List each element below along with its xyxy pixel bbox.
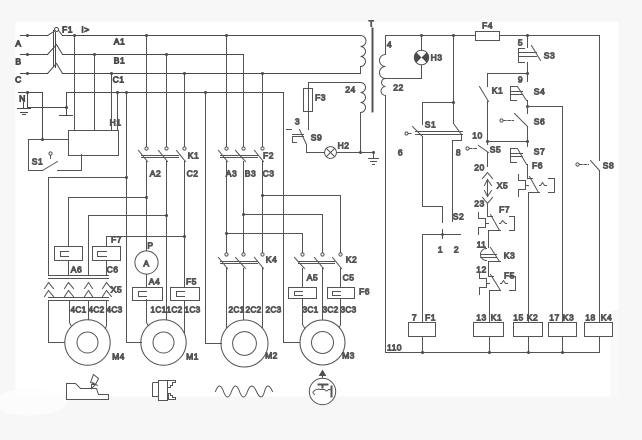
wire N to H1 — [117, 93, 119, 131]
wire 24V top to F3 — [309, 83, 361, 89]
wire 2C3 — [262, 269, 264, 329]
svg-text:M4: M4 — [112, 352, 125, 362]
node N M2 column dot — [204, 91, 207, 94]
node tap4 dot — [183, 235, 186, 238]
overload heater A4 box — [133, 288, 163, 301]
svg-text:3C3: 3C3 — [341, 306, 357, 315]
svg-text:110: 110 — [387, 343, 402, 353]
switch S5 actuator — [466, 147, 469, 150]
fuse F3 — [304, 89, 313, 112]
wire K2 pole2 down — [322, 269, 324, 321]
contactor F2 pole1 — [225, 147, 228, 150]
wire tap1 from N column — [49, 178, 127, 276]
wire F3 to S9 — [308, 112, 310, 130]
wire 4C2 — [88, 301, 90, 321]
svg-text:6: 6 — [398, 148, 403, 158]
wire K1 pole2 down — [166, 162, 168, 321]
connector X5 pin4 arrows — [103, 283, 112, 297]
svg-text:2: 2 — [454, 245, 459, 255]
wire B1 to K1 pole2 — [166, 55, 168, 147]
svg-text:I>: I> — [81, 25, 89, 35]
node A input dot — [26, 34, 29, 37]
node tap B3 dot — [242, 213, 245, 216]
svg-text:A: A — [143, 259, 149, 269]
wire B3 — [243, 162, 245, 253]
switch S4 — [511, 74, 528, 107]
svg-text:A1: A1 — [114, 37, 125, 47]
svg-text:F1: F1 — [425, 313, 436, 323]
svg-text:F6: F6 — [532, 161, 543, 171]
relay coil K4 — [585, 323, 613, 337]
svg-text:3C1: 3C1 — [303, 306, 319, 315]
wire tap B3 to K2 pole2 — [244, 215, 323, 253]
wire node 9 bridge — [488, 73, 528, 75]
wire bus A1 — [63, 35, 361, 37]
connector X5 control — [483, 173, 493, 209]
node S3 out dot — [526, 72, 529, 75]
wire A1 to H1 — [74, 36, 76, 131]
svg-text:A4: A4 — [149, 277, 160, 287]
wire A3 — [226, 162, 228, 253]
ground symbol left — [18, 103, 31, 115]
node K3 rail dot — [561, 351, 564, 354]
switch S6 — [515, 107, 528, 142]
node ground tap dot — [372, 151, 375, 154]
svg-text:A2: A2 — [150, 169, 161, 179]
wire left rail down — [385, 96, 387, 353]
rectifier H1 box — [69, 131, 119, 156]
wire 2C1 — [226, 269, 228, 331]
motor M3 — [300, 320, 345, 365]
contactor K1 pole2 — [165, 147, 168, 150]
wire 4C3 — [105, 301, 107, 332]
relay coil K2 — [514, 323, 543, 337]
svg-text:4: 4 — [387, 40, 392, 50]
svg-text:K1: K1 — [188, 151, 199, 161]
motor M1 — [141, 320, 186, 365]
lamp H2 — [325, 147, 337, 159]
wire K1 coil to rail — [489, 337, 491, 353]
svg-text:B: B — [15, 57, 21, 67]
svg-text:F2: F2 — [263, 151, 274, 161]
switch S9 — [300, 130, 307, 153]
overload heater A5 box — [289, 288, 317, 299]
relay coil K1 — [474, 323, 504, 337]
wire 2C2 — [243, 269, 245, 321]
svg-text:B1: B1 — [114, 56, 125, 66]
fuse F4 — [476, 32, 500, 41]
svg-text:20: 20 — [474, 163, 484, 173]
svg-text:P: P — [147, 241, 153, 251]
contactor F2 tie bars — [221, 156, 258, 158]
contactor K4 tie bars — [221, 262, 258, 264]
node C1 H1 dot — [110, 72, 113, 75]
node B input dot — [26, 53, 29, 56]
svg-text:X5: X5 — [111, 285, 122, 295]
breaker F1 pole C — [48, 64, 63, 74]
switch S8 — [591, 161, 600, 323]
overload heater C6 box — [93, 247, 121, 261]
wire control top rail — [386, 35, 600, 37]
wire C6 to X5 — [106, 262, 108, 276]
contactor K4 pole2 — [242, 253, 245, 256]
svg-text:K2: K2 — [527, 313, 538, 323]
node H1 neutral dot — [116, 91, 119, 94]
wire H3 top — [421, 36, 423, 51]
contactor K2 pole2 — [321, 253, 324, 256]
neutral input wiring — [19, 93, 67, 116]
switch S1 control pole 8 — [453, 124, 462, 222]
motor M2 — [221, 320, 268, 367]
svg-text:C5: C5 — [343, 273, 355, 283]
wire bus B1 — [63, 54, 244, 56]
svg-text:S1: S1 — [425, 120, 436, 130]
node S4 out dot — [526, 105, 529, 108]
node C input dot — [26, 72, 29, 75]
contact F5 overload — [480, 273, 516, 323]
phase A input lead — [21, 35, 48, 37]
svg-text:A5: A5 — [307, 273, 318, 283]
svg-text:C: C — [15, 75, 22, 85]
icon pump arrow — [320, 371, 326, 379]
svg-text:S6: S6 — [534, 117, 545, 127]
switch S2 selector — [423, 230, 461, 239]
node S2 common dot — [441, 233, 444, 236]
connector X5 bottom bars — [49, 298, 109, 301]
node N motor column dot — [125, 91, 128, 94]
wire 4C1 — [70, 301, 73, 329]
wire H2 to ground — [337, 152, 374, 154]
node H3 rail dot — [420, 34, 423, 37]
svg-text:H1: H1 — [110, 118, 122, 128]
ground symbol 24V — [369, 153, 379, 165]
contactor F2 pole3 — [261, 147, 264, 150]
contactor K1 pole3 — [183, 147, 186, 150]
node N ground tap dot — [65, 106, 68, 109]
switch S6 actuator — [500, 119, 503, 122]
svg-text:K1: K1 — [492, 86, 503, 96]
node K1 rail dot — [488, 351, 491, 354]
icon lathe tool — [67, 384, 109, 400]
svg-text:12: 12 — [476, 265, 486, 275]
svg-text:10: 10 — [472, 131, 482, 141]
contact F7 overload — [479, 209, 515, 244]
wire bus C1 — [63, 73, 361, 75]
svg-text:A: A — [15, 39, 21, 49]
node tap1 dot — [125, 176, 128, 179]
svg-text:S3: S3 — [544, 51, 555, 61]
switch S1 main — [29, 140, 82, 171]
wire A6 to X5 — [68, 262, 70, 276]
node A1 K1 dot — [145, 34, 148, 37]
phase B input lead — [21, 54, 48, 56]
svg-text:F3: F3 — [315, 93, 326, 103]
svg-text:S1: S1 — [32, 157, 43, 167]
wire A5 — [302, 269, 304, 288]
svg-text:24: 24 — [345, 85, 355, 95]
wire 3C3 — [339, 300, 341, 330]
svg-text:F6: F6 — [359, 287, 370, 297]
breaker F1 pole A — [48, 31, 63, 36]
svg-text:11: 11 — [477, 240, 487, 250]
svg-text:4C1: 4C1 — [71, 306, 87, 315]
icon coolant wave — [216, 386, 273, 397]
wire C5 — [340, 269, 342, 288]
svg-text:2C3: 2C3 — [266, 306, 282, 315]
node tap C3 dot — [261, 194, 264, 197]
wire node 10 — [488, 141, 528, 143]
overload heater A6 box — [55, 247, 83, 261]
ground symbol under N bus — [60, 115, 73, 117]
wire C2 — [184, 162, 186, 334]
wire B1 to F2 pole2 — [243, 55, 245, 147]
wire secondary tap to H3 — [386, 65, 422, 79]
svg-text:1C3: 1C3 — [185, 306, 201, 315]
wire F1 coil to rail — [422, 337, 424, 353]
phase C input lead — [21, 73, 48, 75]
svg-text:3: 3 — [295, 117, 300, 127]
contactor K4 pole3 — [261, 253, 264, 256]
wire 3C1 — [303, 300, 306, 330]
svg-text:1C2: 1C2 — [167, 306, 183, 315]
wire S2 to F1 coil — [422, 235, 424, 323]
wire tap C3 to K2 pole3 — [263, 196, 341, 253]
svg-text:3C2: 3C2 — [323, 306, 339, 315]
svg-text:F5: F5 — [504, 271, 515, 281]
svg-text:1C1: 1C1 — [151, 306, 167, 315]
wire right rail — [599, 36, 601, 161]
svg-text:F7: F7 — [499, 205, 510, 215]
node 10 right dot — [526, 140, 529, 143]
svg-text:23: 23 — [474, 199, 484, 209]
wire C3 — [262, 162, 264, 253]
svg-text:2C1: 2C1 — [229, 306, 245, 315]
wire M4 left — [49, 301, 65, 343]
wire A1 to K1 pole1 — [146, 36, 148, 147]
switch S9 actuator — [287, 130, 304, 143]
switch S8 actuator — [576, 163, 579, 166]
lamp H3 — [414, 50, 428, 64]
svg-text:K4: K4 — [601, 313, 612, 323]
svg-text:K4: K4 — [266, 255, 277, 265]
svg-text:M1: M1 — [186, 352, 199, 362]
svg-text:C1: C1 — [113, 75, 125, 85]
node S1 feed dot — [41, 138, 44, 141]
icon pump — [309, 378, 335, 404]
svg-text:8: 8 — [456, 148, 461, 158]
svg-text:N: N — [19, 94, 26, 104]
svg-text:X5: X5 — [497, 181, 508, 191]
wire H1 left feed — [29, 139, 69, 141]
wire tap3 from K1 pole2 — [89, 216, 167, 276]
svg-text:13: 13 — [476, 313, 486, 323]
wire tap A3 to K2 pole1 — [227, 234, 303, 253]
contactor K1 tie bars — [142, 156, 179, 158]
svg-text:C3: C3 — [263, 169, 275, 179]
svg-text:4C3: 4C3 — [107, 306, 123, 315]
node C1 F2 dot — [261, 72, 264, 75]
transformer primary winding upper — [361, 36, 367, 74]
breaker F1 tie bars — [54, 31, 56, 68]
svg-text:S9: S9 — [311, 133, 322, 143]
switch S1 actuator circle — [49, 152, 52, 155]
wire K4 coil to rail — [599, 337, 601, 353]
contactor K2 pole1 — [301, 253, 304, 256]
wire K2 coil to rail — [528, 337, 530, 353]
wire 1C1 — [147, 300, 150, 329]
wire M3 left — [284, 93, 300, 343]
node tap3 dot — [165, 214, 168, 217]
wire ammeter to A4 — [146, 275, 148, 288]
wire B1 to H1 — [94, 55, 96, 131]
wire 24V bottom down — [360, 113, 362, 153]
svg-text:7: 7 — [412, 313, 417, 323]
transformer winding 24V — [361, 83, 366, 113]
svg-text:T: T — [369, 19, 375, 29]
node B1 H1 dot — [93, 53, 96, 56]
wire M1 left — [127, 93, 142, 343]
overload heater F5 box — [171, 288, 200, 301]
connector X5 pin1 arrows — [45, 283, 54, 297]
relay coil K3 — [549, 323, 577, 337]
svg-text:K1: K1 — [491, 313, 502, 323]
node N input dot — [26, 91, 29, 94]
node C1 K1 dot — [183, 72, 186, 75]
svg-text:4C2: 4C2 — [89, 306, 105, 315]
svg-text:F5: F5 — [186, 277, 197, 287]
svg-text:22: 22 — [393, 83, 403, 93]
node tap2 dot — [145, 196, 148, 199]
node K2 rail dot — [527, 351, 530, 354]
svg-text:A3: A3 — [226, 169, 237, 179]
node A1 F2 dot — [225, 34, 228, 37]
switch S1 control pole 6 — [413, 127, 423, 207]
ammeter A — [135, 251, 158, 274]
svg-text:2C2: 2C2 — [246, 306, 262, 315]
connector X5 pin2 arrows — [65, 283, 74, 297]
wire S4 to K3 branch — [528, 107, 563, 323]
svg-text:K3: K3 — [504, 251, 515, 261]
node F1 rail dot — [421, 351, 424, 354]
node B1 K1 dot — [165, 53, 168, 56]
switch S1 actuator tick — [50, 156, 52, 159]
svg-text:15: 15 — [513, 313, 523, 323]
wire A1 to F2 pole1 — [226, 36, 228, 147]
svg-text:F7: F7 — [111, 235, 122, 245]
svg-text:F1: F1 — [62, 25, 73, 35]
switch S3 — [527, 36, 529, 48]
wire C1 to F2 pole3 — [262, 74, 264, 147]
svg-text:F4: F4 — [482, 21, 493, 31]
wire S9 to H2 — [307, 152, 325, 154]
wire tap2 from A2 — [69, 198, 147, 247]
wire bottom rail 110 — [386, 352, 600, 354]
transformer secondary winding — [380, 36, 386, 96]
switch S7 — [511, 142, 528, 171]
wire branch 6 to S2 — [423, 207, 443, 223]
contact K1 aux — [480, 74, 489, 142]
contact K3 time delay — [481, 244, 501, 273]
svg-text:K3: K3 — [563, 313, 574, 323]
svg-text:18: 18 — [585, 313, 595, 323]
svg-text:17: 17 — [549, 313, 559, 323]
switch S1 control tie bars — [416, 132, 463, 135]
svg-text:S4: S4 — [534, 87, 545, 97]
contactor K4 pole1 — [225, 253, 228, 256]
wire C1 to H1 — [111, 74, 113, 131]
wire S1 top bridge — [423, 103, 454, 125]
wire C1 to K1 pole3 — [184, 74, 186, 147]
transformer T core — [372, 29, 374, 112]
svg-text:H3: H3 — [431, 53, 443, 63]
node S3 rail dot — [526, 34, 529, 37]
connector X5 top bars — [49, 276, 109, 279]
wire tap4 from C2 — [107, 237, 185, 247]
motor M4 — [65, 320, 110, 365]
relay coil F1 — [409, 323, 436, 337]
wire N to S1 — [42, 93, 44, 140]
contactor F2 pole2 — [242, 147, 245, 150]
switch S5 — [479, 142, 489, 167]
svg-text:B3: B3 — [245, 169, 256, 179]
contactor K2 tie bars — [299, 262, 335, 264]
svg-text:C6: C6 — [107, 265, 119, 275]
overload heater F6 box — [328, 288, 355, 299]
breaker F1 pole A circle — [55, 28, 59, 32]
svg-text:K2: K2 — [346, 255, 357, 265]
node S1 bridge dot — [452, 101, 455, 104]
svg-text:9: 9 — [518, 75, 523, 85]
svg-text:5: 5 — [518, 38, 523, 48]
node 10 left dot — [486, 140, 489, 143]
node S1 feed rail dot — [452, 34, 455, 37]
wire A2 — [146, 162, 148, 251]
contactor K2 pole3 — [339, 253, 342, 256]
switch S1 control actuator — [405, 132, 408, 135]
contact F6 overload — [519, 171, 555, 323]
svg-text:A6: A6 — [71, 265, 82, 275]
svg-text:S2: S2 — [453, 212, 464, 222]
wire N bus — [67, 92, 284, 94]
node A1 H1 dot — [73, 34, 76, 37]
breaker F1 pole B — [48, 45, 63, 55]
svg-text:M3: M3 — [342, 351, 355, 361]
svg-text:S5: S5 — [490, 145, 501, 155]
svg-text:M2: M2 — [265, 351, 278, 361]
node tap A3 dot — [225, 232, 228, 235]
svg-text:S8: S8 — [603, 161, 614, 171]
svg-text:S7: S7 — [534, 147, 545, 157]
node 24V return dot — [359, 151, 362, 154]
icon chuck — [153, 383, 159, 397]
wire K3 coil to rail — [562, 337, 564, 353]
contactor K1 pole1 — [145, 147, 148, 150]
svg-text:1: 1 — [438, 245, 443, 255]
svg-text:H2: H2 — [338, 141, 350, 151]
wire M2 left — [206, 93, 222, 344]
connector X5 pin3 arrows — [85, 283, 93, 297]
svg-text:C2: C2 — [187, 169, 199, 179]
wire S1 feed from rail — [453, 36, 455, 124]
